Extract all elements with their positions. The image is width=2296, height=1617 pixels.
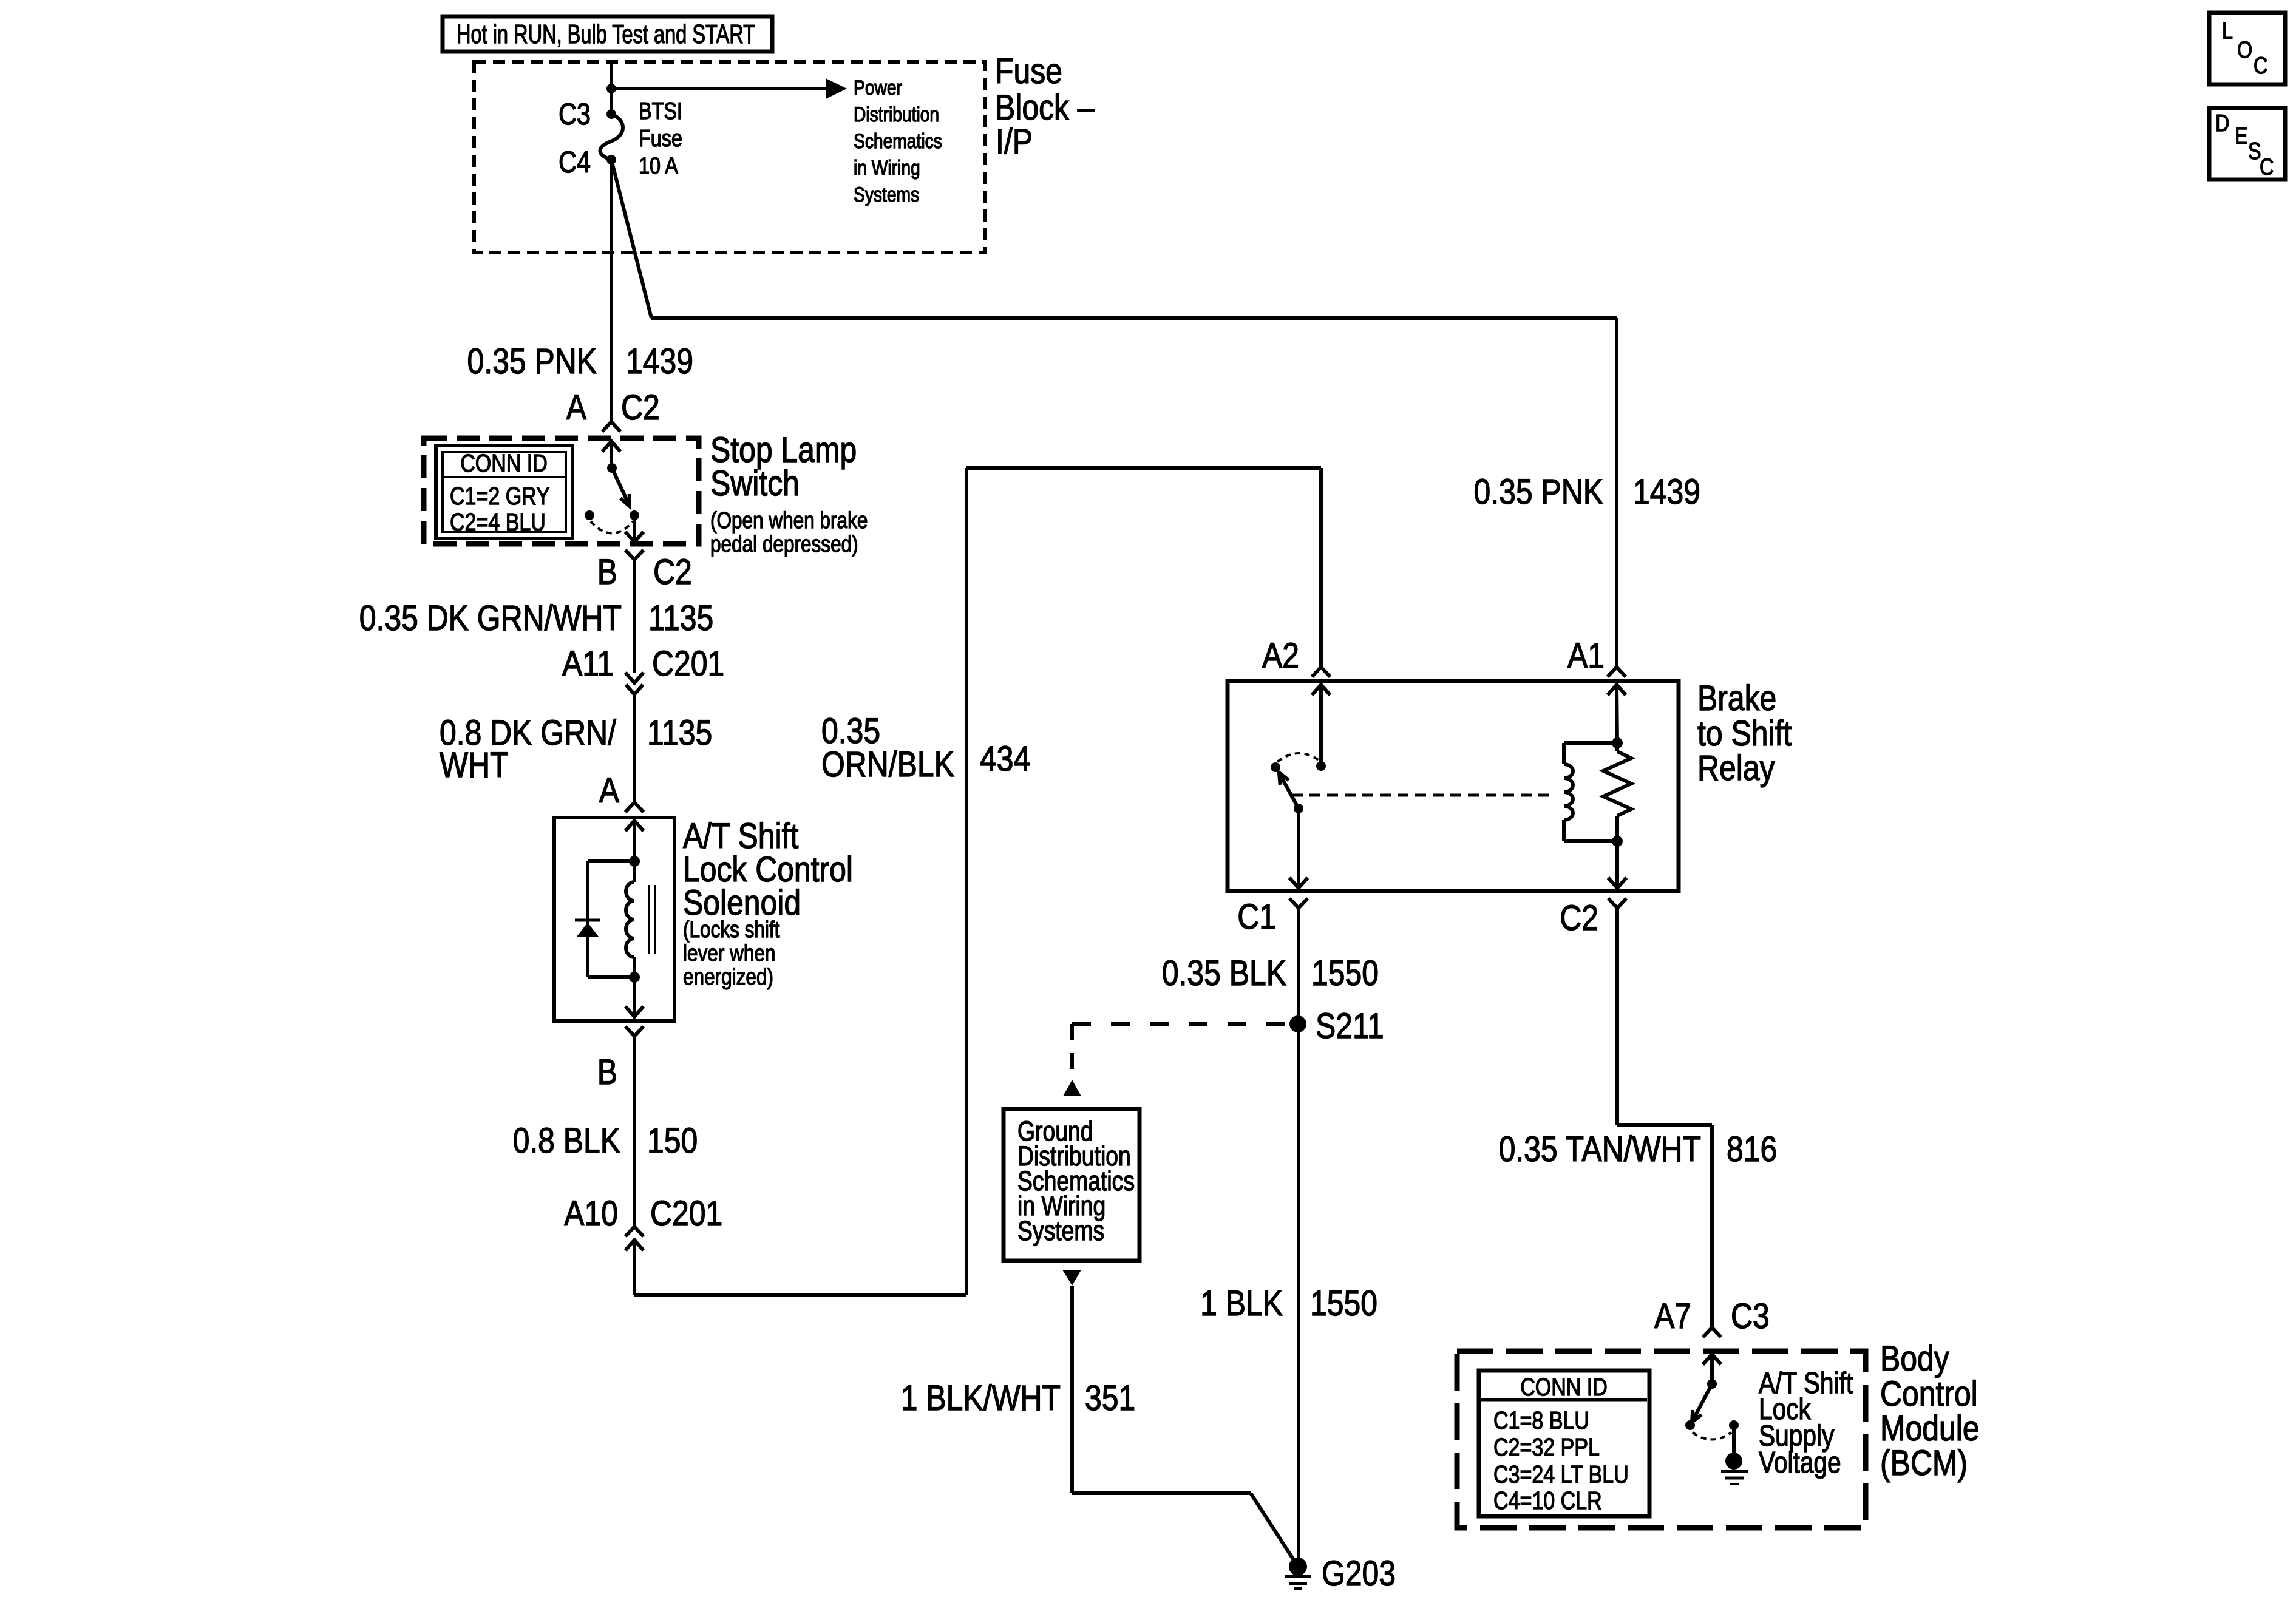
svg-text:C: C [2254, 52, 2267, 79]
svg-text:C2=32 PPL: C2=32 PPL [1493, 1433, 1600, 1461]
svg-text:A2: A2 [1262, 637, 1299, 676]
svg-text:Hot in RUN, Bulb Test and STAR: Hot in RUN, Bulb Test and START [457, 19, 755, 49]
svg-text:Control: Control [1880, 1375, 1978, 1414]
svg-text:CONN ID: CONN ID [460, 449, 548, 477]
svg-text:O: O [2237, 36, 2252, 63]
svg-text:1135: 1135 [648, 599, 713, 638]
svg-text:(BCM): (BCM) [1880, 1444, 1968, 1483]
svg-text:BTSI: BTSI [639, 98, 682, 124]
svg-text:A: A [599, 771, 619, 810]
svg-text:D: D [2215, 110, 2229, 137]
svg-text:Schematics: Schematics [854, 130, 942, 153]
svg-text:1439: 1439 [626, 342, 693, 381]
svg-text:CONN ID: CONN ID [1520, 1373, 1608, 1401]
svg-text:C1=2 GRY: C1=2 GRY [450, 482, 550, 510]
svg-text:in Wiring: in Wiring [854, 157, 920, 180]
svg-text:G203: G203 [1322, 1554, 1396, 1593]
svg-text:351: 351 [1085, 1379, 1135, 1418]
svg-text:0.35 DK GRN/WHT: 0.35 DK GRN/WHT [359, 599, 622, 638]
svg-text:Systems: Systems [1017, 1216, 1104, 1246]
svg-text:C1: C1 [1237, 898, 1276, 937]
svg-text:0.35 PNK: 0.35 PNK [467, 342, 597, 381]
svg-text:1 BLK/WHT: 1 BLK/WHT [901, 1379, 1061, 1418]
svg-text:I/P: I/P [996, 123, 1033, 161]
svg-text:Brake: Brake [1697, 679, 1776, 718]
svg-text:lever when: lever when [683, 940, 775, 966]
svg-text:S211: S211 [1316, 1007, 1384, 1046]
svg-text:C3: C3 [1731, 1297, 1770, 1336]
svg-text:A11: A11 [562, 645, 614, 683]
svg-text:Block –: Block – [995, 89, 1095, 127]
svg-text:(Open when brake: (Open when brake [710, 507, 868, 533]
svg-text:1550: 1550 [1311, 954, 1379, 993]
svg-text:C3=24 LT BLU: C3=24 LT BLU [1493, 1460, 1629, 1488]
svg-text:WHT: WHT [440, 746, 509, 785]
svg-text:0.35 BLK: 0.35 BLK [1162, 954, 1286, 993]
svg-text:E: E [2235, 123, 2248, 149]
svg-text:Fuse: Fuse [995, 52, 1062, 91]
svg-text:C: C [2260, 154, 2274, 180]
svg-text:pedal depressed): pedal depressed) [710, 531, 858, 557]
svg-text:C2: C2 [621, 388, 660, 427]
svg-text:B: B [597, 1053, 617, 1092]
svg-text:C4=10 CLR: C4=10 CLR [1493, 1486, 1602, 1514]
svg-text:Body: Body [1880, 1340, 1949, 1378]
svg-text:Relay: Relay [1697, 749, 1775, 788]
svg-text:A1: A1 [1567, 637, 1605, 676]
svg-text:434: 434 [980, 740, 1030, 779]
svg-text:ORN/BLK: ORN/BLK [821, 745, 954, 784]
svg-text:1439: 1439 [1633, 473, 1700, 512]
svg-text:1550: 1550 [1310, 1284, 1377, 1323]
svg-text:energized): energized) [683, 964, 773, 989]
svg-text:C2: C2 [1560, 899, 1598, 938]
svg-text:0.8 BLK: 0.8 BLK [513, 1122, 620, 1161]
svg-text:150: 150 [647, 1122, 698, 1161]
svg-text:0.35 PNK: 0.35 PNK [1474, 473, 1603, 512]
svg-text:C201: C201 [652, 645, 724, 683]
svg-text:Voltage: Voltage [1759, 1445, 1841, 1479]
svg-text:C2=4 BLU: C2=4 BLU [450, 508, 546, 536]
svg-text:to Shift: to Shift [1697, 714, 1792, 753]
svg-text:Power: Power [854, 76, 902, 100]
svg-text:A: A [566, 388, 586, 427]
svg-text:816: 816 [1727, 1130, 1777, 1169]
svg-text:B: B [597, 553, 617, 592]
svg-text:C1=8 BLU: C1=8 BLU [1493, 1406, 1589, 1434]
svg-text:C4: C4 [559, 144, 591, 179]
svg-text:L: L [2222, 18, 2233, 44]
svg-text:(Locks shift: (Locks shift [683, 917, 780, 942]
svg-text:Systems: Systems [854, 183, 919, 206]
svg-text:C201: C201 [650, 1195, 722, 1233]
svg-text:A10: A10 [564, 1195, 618, 1233]
svg-text:Fuse: Fuse [639, 125, 682, 152]
svg-text:C3: C3 [559, 97, 591, 131]
svg-text:C2: C2 [653, 553, 692, 592]
svg-text:0.35 TAN/WHT: 0.35 TAN/WHT [1499, 1130, 1701, 1169]
svg-text:1135: 1135 [647, 714, 712, 753]
svg-text:Distribution: Distribution [854, 103, 939, 126]
svg-text:Switch: Switch [710, 464, 800, 503]
svg-text:A7: A7 [1654, 1297, 1691, 1336]
svg-text:10 A: 10 A [639, 152, 678, 179]
svg-text:1 BLK: 1 BLK [1200, 1284, 1283, 1323]
svg-text:Module: Module [1880, 1409, 1980, 1448]
